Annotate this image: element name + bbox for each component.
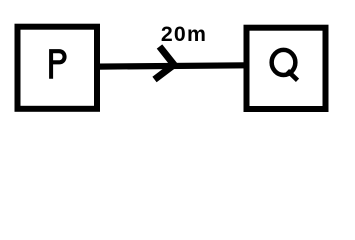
svg-text:20m: 20m (161, 22, 206, 46)
